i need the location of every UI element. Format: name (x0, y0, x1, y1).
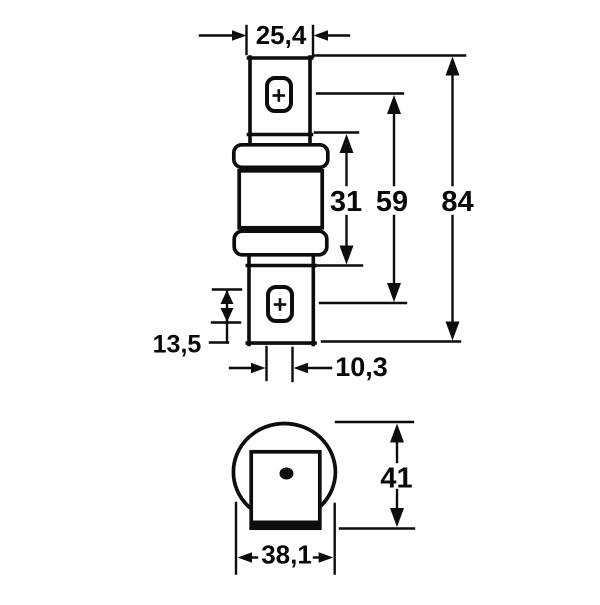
dim 10,3 extension lines (267, 347, 293, 381)
dim 31 extension top (315, 131, 358, 133)
top blade terminal (249, 57, 312, 144)
dim 84 arrows (446, 57, 460, 76)
top slot center mark (274, 91, 284, 101)
dim 59 line (393, 110, 395, 287)
bottom slot center mark (275, 300, 285, 310)
bottom end cap (234, 231, 327, 255)
bottom view center dot (280, 468, 294, 480)
bottom view blade square (251, 452, 320, 528)
dim 84 extension top (315, 54, 465, 56)
dim 59 extension top (317, 92, 403, 94)
dim 41 extension bottom (340, 527, 414, 529)
dim 13,5 extension lines (210, 290, 241, 343)
bottom blade slot (268, 287, 292, 321)
dim 41 line (396, 437, 398, 513)
dim 25,4 leader right (313, 26, 349, 57)
dim 25,4 arrow left (232, 30, 247, 40)
top blade slot (267, 78, 291, 111)
svg-text:38,1: 38,1 (261, 540, 312, 570)
svg-text:13,5: 13,5 (153, 331, 202, 359)
ceramic body (239, 171, 322, 228)
dim 31 extension bottom (315, 264, 362, 266)
svg-text:41: 41 (380, 463, 412, 495)
bottom view blade edge bar (250, 521, 321, 531)
svg-text:84: 84 (441, 186, 473, 218)
bottom blade terminal (247, 256, 315, 345)
dim 25,4 leader left (200, 26, 247, 54)
dim 59 arrows (387, 95, 401, 114)
dim 84 line (451, 70, 453, 326)
dim 25,4 arrow right (314, 30, 329, 40)
dim 13,5 arrows (221, 290, 234, 304)
svg-text:59: 59 (376, 186, 408, 218)
dim 41 arrows (390, 424, 404, 443)
svg-text:10,3: 10,3 (335, 352, 388, 382)
dim 38,1 arrow left (249, 556, 257, 558)
bottom view body circle (233, 424, 335, 521)
svg-text:25,4: 25,4 (256, 20, 307, 50)
dim 10,3 leader right (306, 367, 331, 369)
dim 84 extension bottom (322, 340, 460, 342)
dim 31 line (345, 149, 347, 250)
dim 41 extension top (336, 421, 413, 423)
dim 31 arrows (340, 134, 354, 153)
dim 59 extension bottom (320, 302, 406, 304)
dim 10,3 leader left (230, 367, 253, 369)
svg-text:31: 31 (330, 186, 362, 218)
dim 38,1 arrow right (314, 556, 322, 558)
top end cap (234, 145, 328, 168)
dim 38,1 extension lines (236, 503, 335, 574)
